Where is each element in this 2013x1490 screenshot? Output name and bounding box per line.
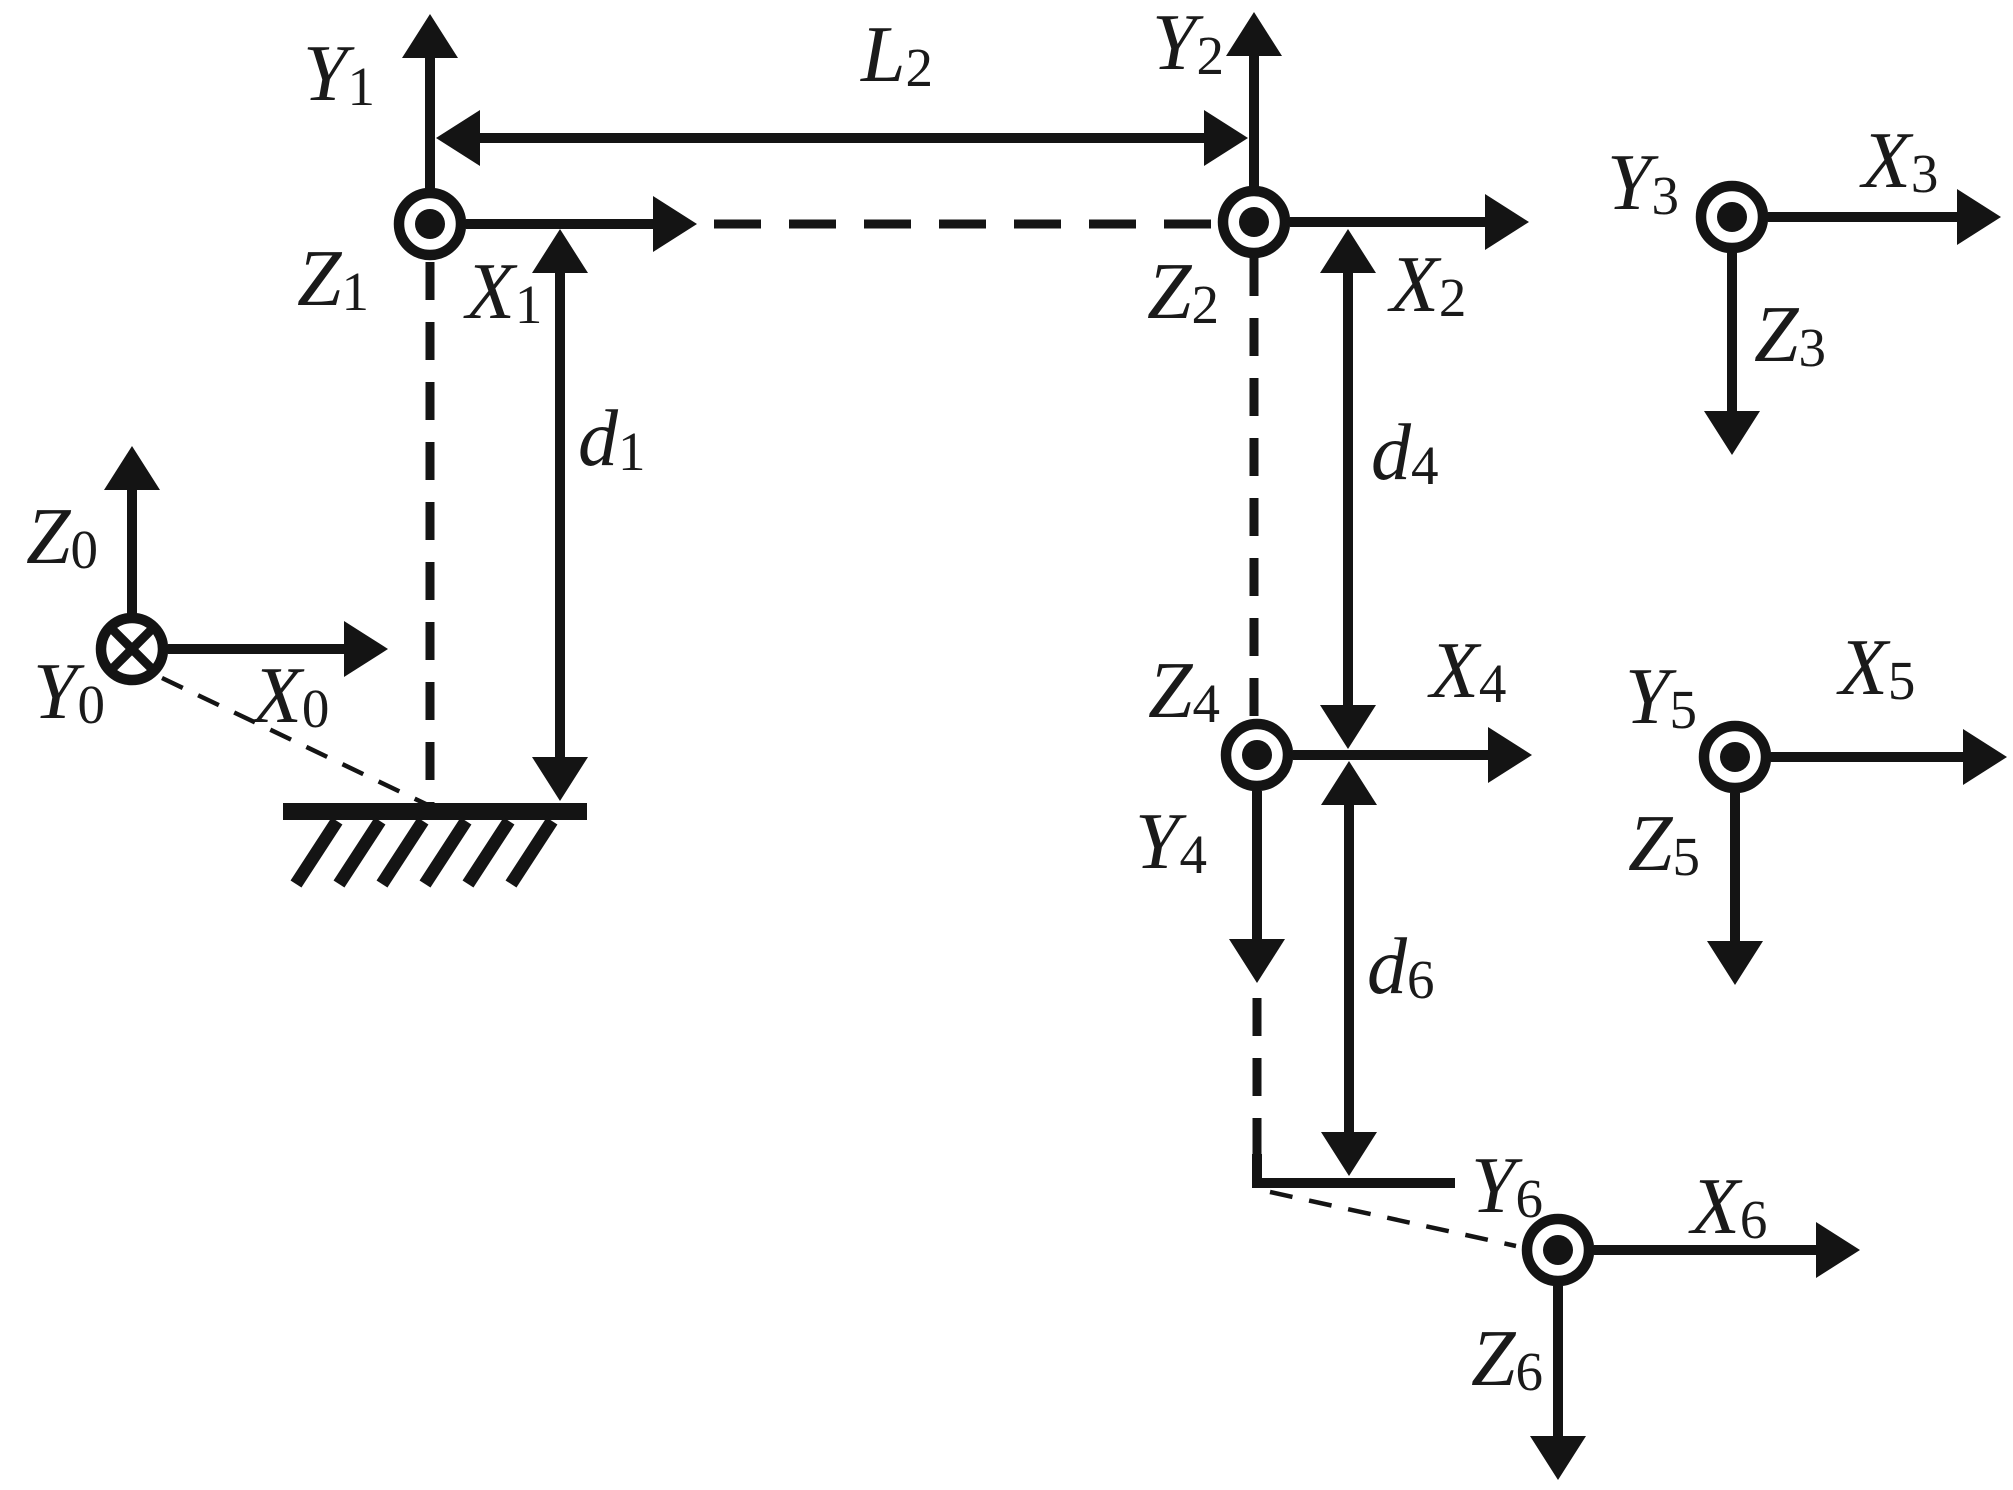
axis X1 dashed continuation (714, 220, 1212, 229)
axis X0 (168, 644, 353, 654)
axis Y4 (1252, 791, 1262, 948)
node Y0 (into-page symbol) (101, 618, 163, 680)
axis X6 (1594, 1245, 1825, 1255)
axis Y1 (425, 49, 435, 190)
axis Z1 dashed (426, 262, 435, 806)
dimension d6 (1344, 796, 1354, 1141)
axis X2 (1290, 217, 1494, 227)
node Z1 (out-of-page symbol) (399, 193, 461, 255)
node Y3 (out-of-page symbol) (1701, 186, 1763, 248)
dimension d4 (1343, 264, 1353, 714)
dimension L2 (471, 133, 1213, 143)
axis X1 solid (466, 219, 662, 229)
axis X3 (1768, 212, 1966, 222)
axis Z3 (1727, 253, 1737, 420)
ground bar (283, 803, 587, 820)
axis Z2 dashed (1250, 258, 1259, 717)
wire corner to Y6 reference (1257, 1154, 1455, 1183)
axis X5 (1771, 752, 1972, 762)
node Y5 (out-of-page symbol) (1704, 726, 1766, 788)
dimension d1 (555, 264, 565, 766)
node Z2 (out-of-page symbol) (1223, 191, 1285, 253)
axis X4 (1293, 750, 1497, 760)
node Z4 (out-of-page symbol) (1226, 724, 1288, 786)
axis Z5 (1730, 793, 1740, 950)
axis Y2 (1249, 47, 1259, 186)
node Y6 (out-of-page symbol) (1527, 1219, 1589, 1281)
wire construction dashed to Y6 (1270, 1192, 1516, 1246)
ground hatching (296, 821, 552, 884)
wire construction dashed from Y0 to base (162, 678, 430, 806)
axis Y4 dashed extension (1253, 998, 1262, 1160)
axis Z6 (1553, 1286, 1563, 1445)
axis Z0 (127, 481, 137, 618)
